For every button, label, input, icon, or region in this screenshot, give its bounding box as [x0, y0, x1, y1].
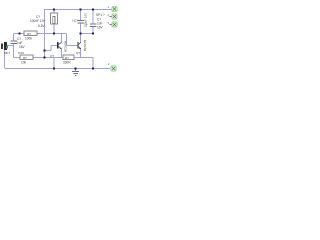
connector pin 3 — [112, 22, 117, 27]
junction (80,33) — [80, 33, 82, 35]
wire ground rail — [5, 68, 110, 70]
resistor R4 (emitter, horizontal box) — [63, 55, 74, 64]
svg-text:100k: 100k — [25, 37, 32, 41]
connector pin 4 — [111, 66, 116, 71]
wire to Q2 base — [67, 34, 78, 46]
connector pin 1 — [112, 6, 117, 11]
wire mic signal lead — [7, 45, 14, 47]
svg-text:2: 2 — [108, 13, 110, 17]
svg-text:100nF 1%: 100nF 1% — [30, 19, 45, 23]
wire Q1 collector — [61, 34, 63, 43]
svg-text:5.0V: 5.0V — [18, 51, 24, 55]
wire pin2 stub — [110, 16, 113, 18]
svg-text:3: 3 — [108, 21, 110, 25]
capacitor C1 plates — [11, 37, 26, 49]
resistor R1 (series input, horizontal box) — [24, 31, 37, 41]
svg-text:2: 2 — [108, 62, 110, 66]
wire C2 branch — [80, 9, 82, 34]
svg-text:SP1 ?: SP1 ? — [96, 13, 105, 17]
junction (93,33) — [92, 33, 94, 35]
resistor R2 (collector load, vertical box) — [51, 13, 58, 24]
svg-text:MK?: MK? — [4, 51, 11, 55]
svg-text:R?: R? — [23, 56, 27, 60]
wire emitter rail — [14, 57, 94, 59]
wire Q1 emitter — [61, 49, 63, 58]
wire left supply vertical — [44, 9, 46, 57]
junction (45,57) — [44, 57, 46, 59]
svg-text:16V: 16V — [97, 26, 104, 30]
svg-text:+C?: +C? — [72, 19, 78, 23]
svg-text:BC547B: BC547B — [83, 40, 87, 51]
wire R2 bottom lead — [53, 24, 55, 34]
svg-text:+: + — [86, 23, 88, 27]
svg-text:1: 1 — [108, 5, 110, 9]
wire C3 branch — [92, 9, 94, 35]
svg-text:BC547B: BC547B — [64, 41, 68, 52]
transistor Q1 — [50, 41, 68, 58]
junction (93,68) — [92, 68, 94, 70]
junction (93,9) — [92, 9, 94, 11]
svg-text:R?: R? — [65, 56, 69, 60]
wire Q2 emitter — [80, 49, 82, 58]
wire mic ground lead — [4, 50, 6, 69]
wire top rail — [45, 9, 112, 11]
microphone MK1 — [1, 42, 11, 55]
wire R2 top lead — [53, 9, 55, 13]
svg-text:10k: 10k — [21, 61, 27, 65]
wire base jog Q1 — [45, 46, 58, 51]
wire rail drop to ground rail — [92, 58, 94, 69]
junction (19.5,33) — [19, 33, 21, 35]
label C?/100nF/6.3V for R2 — [30, 15, 45, 28]
junction (45,50) — [44, 50, 46, 52]
wire input horizontal net — [14, 33, 66, 35]
junction (80,9) — [80, 9, 82, 11]
transistor Q2 — [76, 40, 87, 55]
capacitor C3 plates + label — [86, 18, 104, 30]
junction (54,9) — [53, 9, 55, 11]
svg-text:Q?: Q? — [50, 54, 54, 58]
junction (54,68) — [53, 68, 55, 70]
wire output horizontal — [81, 33, 94, 35]
resistor R3 (bias, horizontal box) — [18, 51, 33, 65]
svg-text:330R: 330R — [63, 61, 71, 65]
wire mid tie — [53, 58, 55, 69]
junction (75,68) — [75, 68, 77, 70]
wire C1 vertical — [13, 34, 15, 58]
svg-text:16V: 16V — [19, 45, 26, 49]
svg-text:Q?: Q? — [76, 51, 80, 55]
junction (54,33) — [53, 33, 55, 35]
ground — [72, 69, 79, 76]
svg-text:6.3V: 6.3V — [38, 24, 45, 28]
svg-text:R?: R? — [27, 32, 31, 36]
connector pin 2 — [112, 14, 117, 19]
capacitor C2 plates + label — [72, 13, 88, 28]
wire Q2 collector — [80, 34, 82, 43]
wire pin3 stub — [110, 24, 113, 26]
